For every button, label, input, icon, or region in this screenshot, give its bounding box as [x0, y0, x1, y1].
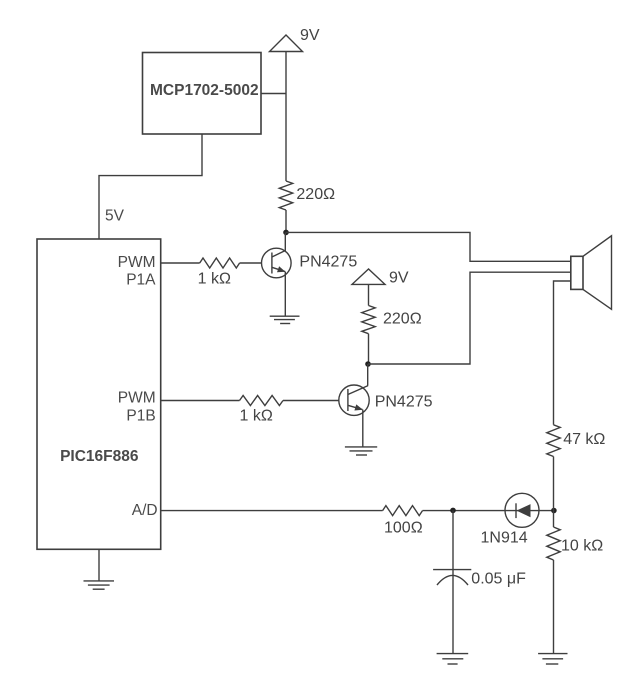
svg-text:220Ω: 220Ω: [383, 311, 422, 328]
svg-text:A/D: A/D: [132, 502, 158, 519]
svg-text:PN4275: PN4275: [299, 254, 357, 271]
svg-text:1 kΩ: 1 kΩ: [240, 408, 273, 425]
svg-text:1N914: 1N914: [481, 530, 528, 547]
svg-text:5V: 5V: [105, 208, 125, 225]
svg-text:P1A: P1A: [126, 271, 156, 288]
svg-text:100Ω: 100Ω: [384, 520, 423, 537]
svg-text:PWM: PWM: [118, 390, 156, 407]
svg-text:0.05 μF: 0.05 μF: [471, 571, 526, 588]
svg-text:47 kΩ: 47 kΩ: [563, 431, 605, 448]
svg-text:9V: 9V: [389, 270, 409, 287]
svg-text:220Ω: 220Ω: [296, 186, 335, 203]
svg-text:1 kΩ: 1 kΩ: [198, 270, 231, 287]
svg-text:9V: 9V: [300, 27, 320, 44]
svg-text:PWM: PWM: [118, 254, 156, 271]
svg-text:10 kΩ: 10 kΩ: [561, 538, 603, 555]
svg-text:PN4275: PN4275: [375, 394, 433, 411]
svg-text:MCP1702-5002: MCP1702-5002: [150, 82, 259, 99]
svg-text:PIC16F886: PIC16F886: [60, 448, 139, 465]
svg-text:P1B: P1B: [126, 408, 155, 425]
